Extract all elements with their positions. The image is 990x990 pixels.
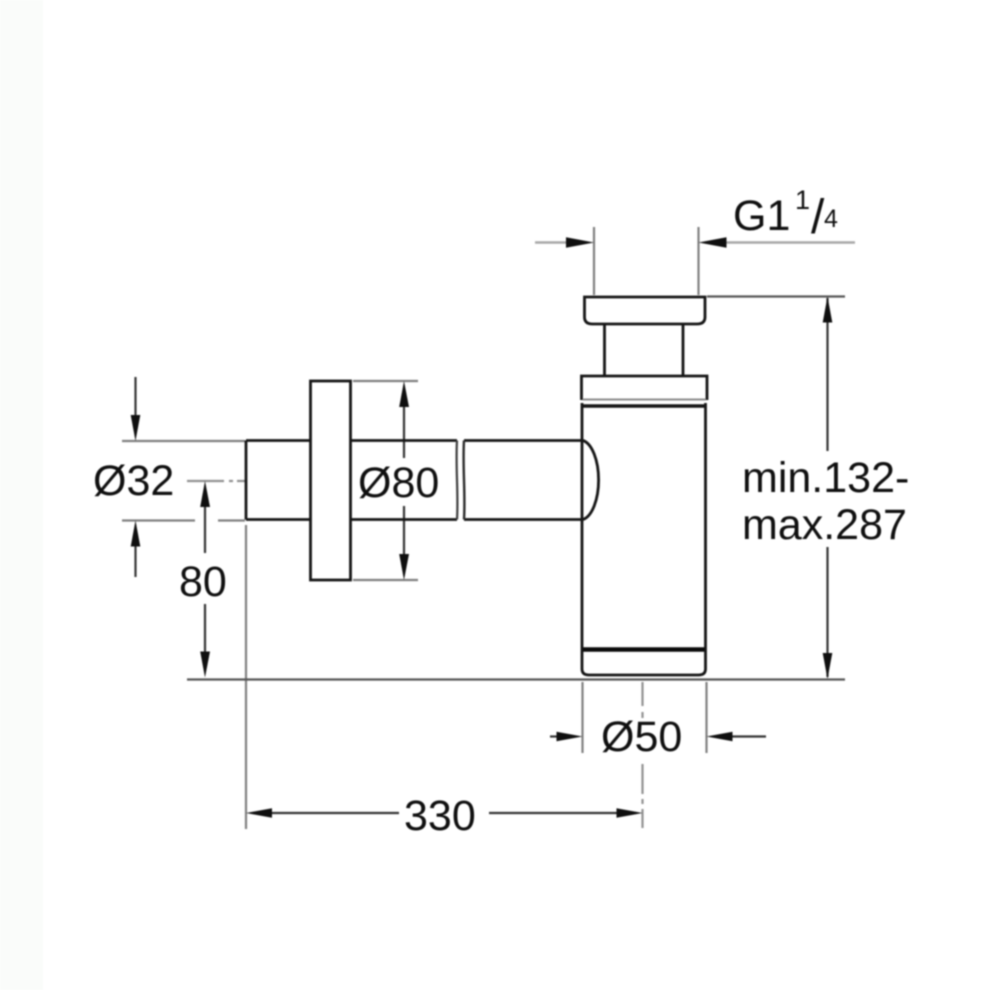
svg-text:80: 80 [179, 558, 227, 606]
svg-text:min.132-: min.132- [742, 454, 909, 502]
svg-text:Ø80: Ø80 [358, 459, 439, 507]
svg-text:4: 4 [824, 205, 838, 233]
svg-text:G1: G1 [733, 192, 790, 240]
svg-text:/: / [811, 191, 825, 244]
svg-text:1: 1 [795, 185, 810, 215]
svg-text:Ø50: Ø50 [601, 713, 682, 761]
svg-text:Ø32: Ø32 [93, 457, 174, 505]
svg-text:330: 330 [404, 792, 476, 840]
svg-text:max.287: max.287 [742, 501, 907, 549]
